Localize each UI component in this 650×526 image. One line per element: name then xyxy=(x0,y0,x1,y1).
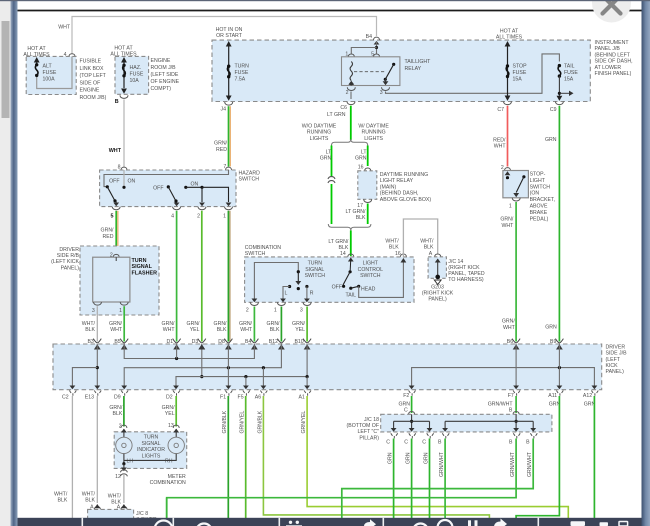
svg-text:14: 14 xyxy=(340,251,346,257)
wire GRN/WHT J/C18 B2 down to rail xyxy=(167,439,516,519)
svg-text:SWITCH: SWITCH xyxy=(245,251,266,257)
wire GRN/RED from J4 to hazard pin 7 xyxy=(214,106,230,166)
svg-text:7.5A: 7.5A xyxy=(235,77,246,83)
svg-text:GRN/: GRN/ xyxy=(162,405,176,411)
wire WHT/BLK meter 12 down to J/C8 A xyxy=(108,474,124,506)
node D8 connector xyxy=(218,339,232,350)
node D1 connector xyxy=(166,339,180,350)
node A connector J/C8 left xyxy=(90,504,100,511)
svg-text:BRACKET,: BRACKET, xyxy=(530,197,555,203)
svg-text:WHT/: WHT/ xyxy=(420,238,434,244)
svg-text:ALL TIMES: ALL TIMES xyxy=(23,52,50,58)
svg-text:AT LOWER: AT LOWER xyxy=(595,65,622,71)
svg-text:TAIL: TAIL xyxy=(564,64,575,70)
svg-text:(LEFT SIDE: (LEFT SIDE xyxy=(151,72,179,78)
node 1 comb switch bottom connector xyxy=(274,302,285,313)
svg-text:C6: C6 xyxy=(340,105,347,111)
J/C 8 box (dashed, cut by toolbar) xyxy=(88,509,157,523)
node B connector of J/C18 xyxy=(513,411,519,414)
svg-text:B10: B10 xyxy=(294,339,303,345)
wire GRN/YEL D2 to meter pin 13 xyxy=(162,396,177,427)
svg-text:WHT: WHT xyxy=(494,144,507,150)
svg-text:BLK: BLK xyxy=(270,327,280,333)
svg-text:A6: A6 xyxy=(255,395,261,401)
svg-text:WHT: WHT xyxy=(240,327,253,333)
svg-text:ABOVE: ABOVE xyxy=(530,204,548,210)
svg-text:STOP-: STOP- xyxy=(530,172,546,178)
svg-text:TAILLIGHT: TAILLIGHT xyxy=(405,59,432,65)
node F1 xyxy=(220,391,232,401)
svg-text:A11: A11 xyxy=(548,393,557,399)
svg-text:YEL: YEL xyxy=(190,327,200,333)
svg-text:OFF: OFF xyxy=(332,285,342,291)
svg-text:1: 1 xyxy=(509,203,512,209)
svg-text:C: C xyxy=(386,439,390,445)
svg-text:ALL TIMES: ALL TIMES xyxy=(110,51,137,57)
node B5 connector xyxy=(114,339,128,350)
svg-text:GRN/: GRN/ xyxy=(500,217,514,223)
wire B3 to E13 with C2 branch xyxy=(70,344,101,389)
svg-text:FUSIBLE: FUSIBLE xyxy=(80,59,102,65)
svg-text:LH: LH xyxy=(127,458,134,464)
right blue bar xyxy=(642,0,650,526)
node 2 flasher pin connector xyxy=(110,252,119,261)
svg-text:BLK: BLK xyxy=(424,245,434,251)
wire WHT top rail from fusible link pin 4 to instrument J/B pin B4 xyxy=(58,17,376,54)
wire D3 down to rail3 xyxy=(198,344,205,378)
svg-text:GRN/: GRN/ xyxy=(214,321,228,327)
svg-text:WHT: WHT xyxy=(503,325,516,331)
node C2 xyxy=(62,391,76,401)
svg-text:KICK: KICK xyxy=(606,363,619,369)
node F2 xyxy=(398,391,415,414)
svg-text:OFF: OFF xyxy=(153,185,163,191)
svg-text:INDICATOR: INDICATOR xyxy=(137,447,165,453)
svg-text:GRN/: GRN/ xyxy=(101,228,115,234)
engine room J/B box (dashed) xyxy=(110,45,179,94)
node 17 daytime relay bottom connector xyxy=(346,199,372,221)
node merge brace lower xyxy=(328,224,371,230)
wire WHT from fuse B down to hazard switch pin 8 xyxy=(109,99,124,167)
svg-text:GRN: GRN xyxy=(406,452,412,464)
node 16 daytime relay connector xyxy=(358,164,371,171)
svg-text:OFF: OFF xyxy=(109,179,119,185)
svg-text:100A: 100A xyxy=(43,76,56,82)
wire B5 to D1 to B4 rail xyxy=(124,344,254,360)
wire F2 to B9 to A12 rail xyxy=(409,344,598,389)
svg-text:GRN/: GRN/ xyxy=(292,321,306,327)
wire GRN J/C18 C2 down xyxy=(406,439,412,519)
wire GRN/RED hazard 5 to flasher 2 xyxy=(101,211,118,254)
svg-text:15A: 15A xyxy=(564,77,574,83)
svg-text:GRN: GRN xyxy=(545,137,557,143)
svg-text:C2: C2 xyxy=(62,395,69,401)
wire inner loop of fusible link box xyxy=(37,56,72,88)
svg-text:DRIVER: DRIVER xyxy=(59,247,79,253)
wire flasher pin2 stub xyxy=(115,257,117,261)
svg-text:B: B xyxy=(115,99,119,105)
svg-text:GRN/: GRN/ xyxy=(502,319,516,325)
svg-text:FUSE: FUSE xyxy=(564,70,578,76)
wire GRN/WHT stop switch 1 to J/B B6 xyxy=(500,202,516,342)
instrument panel J/B box (dashed) xyxy=(212,40,633,102)
svg-text:PILLAR): PILLAR) xyxy=(359,435,379,441)
svg-text:TURN: TURN xyxy=(235,64,250,70)
wire GRN C9 to J/B B9 xyxy=(545,106,559,342)
wire GRN F2 down to J/C18 C xyxy=(411,396,413,413)
wire hazard pin8 internal xyxy=(123,170,125,187)
svg-text:TURN: TURN xyxy=(144,435,159,441)
toolbar icon fragments xyxy=(155,520,453,526)
svg-text:16: 16 xyxy=(358,164,364,170)
svg-text:BLK: BLK xyxy=(389,245,399,251)
svg-text:SWITCH: SWITCH xyxy=(530,184,551,190)
svg-text:BLK: BLK xyxy=(85,327,95,333)
wire GRN/YEL F5 down to bottom xyxy=(240,396,246,518)
stop light switch box xyxy=(503,171,555,223)
top window edge line xyxy=(0,0,650,1)
svg-text:GRN/: GRN/ xyxy=(109,321,123,327)
node inline connector on left branch xyxy=(328,177,335,183)
svg-text:BLK: BLK xyxy=(356,215,366,221)
wire color labels above driver side J/B xyxy=(82,321,306,333)
svg-text:STOP: STOP xyxy=(513,64,528,70)
svg-text:WHT/: WHT/ xyxy=(82,321,96,327)
driver side R/B box (dashed) xyxy=(51,246,159,315)
svg-text:SWITCH: SWITCH xyxy=(239,177,260,183)
daytime running light relay box (dashed) xyxy=(358,171,432,203)
J/C 14 box (dashed) xyxy=(428,257,485,283)
svg-text:R: R xyxy=(310,291,314,297)
svg-text:INSTRUMENT: INSTRUMENT xyxy=(595,40,630,46)
taillight relay box xyxy=(342,57,432,86)
svg-text:GRN: GRN xyxy=(320,156,332,162)
svg-text:HAZARD: HAZARD xyxy=(239,171,261,177)
svg-text:(BEHIND LEFT: (BEHIND LEFT xyxy=(595,52,631,58)
svg-text:GRN/BLK: GRN/BLK xyxy=(222,410,228,433)
node C connector of J/C18 xyxy=(409,411,415,414)
turn signal indicator lights box (dashed) xyxy=(114,432,187,469)
svg-text:WHT/: WHT/ xyxy=(82,491,96,497)
svg-text:GRN/YEL: GRN/YEL xyxy=(301,411,307,434)
svg-text:BLK: BLK xyxy=(85,498,95,504)
node 1 hazard bottom connector xyxy=(223,207,232,220)
hazard switch S2 OFF xyxy=(153,185,179,206)
node 4 fusible link box connector xyxy=(64,52,75,58)
svg-text:ENGINE: ENGINE xyxy=(151,58,171,64)
relay coil xyxy=(350,62,352,81)
svg-text:B4: B4 xyxy=(366,34,372,40)
svg-text:GRN/: GRN/ xyxy=(214,140,228,146)
svg-text:RUNNING: RUNNING xyxy=(361,130,385,136)
node 4 hazard bottom connector xyxy=(171,207,180,220)
wire LT GRN/BLK merged down to comb switch 14 xyxy=(350,230,352,256)
node 1 stop switch bottom connector xyxy=(509,198,520,210)
node 13 meter connector xyxy=(168,423,179,429)
svg-text:D1: D1 xyxy=(166,339,173,345)
node B4 connector on instrument J/B top xyxy=(366,34,380,40)
svg-text:GRN/: GRN/ xyxy=(162,321,176,327)
wire GRN/WHT J/C18 B3 down to rail xyxy=(342,439,533,519)
svg-text:GRN/WHT: GRN/WHT xyxy=(510,451,516,477)
node B12 connector xyxy=(269,339,286,350)
wire from B4 to taillight relay pins 1 and 5 xyxy=(351,41,379,54)
wire GRN A11 down xyxy=(516,396,559,518)
J/C18 internal B bus xyxy=(442,414,536,432)
svg-text:HEAD: HEAD xyxy=(361,286,376,292)
svg-text:F7: F7 xyxy=(508,393,514,399)
node 2 stop switch connector xyxy=(501,165,511,171)
node C6 connector xyxy=(327,102,355,119)
wire WHT/BLK comb 16 to J/C 14 A xyxy=(385,219,437,257)
wire LT GRN left branch lower xyxy=(328,184,349,251)
svg-text:B: B xyxy=(509,439,513,445)
wire B6 to F7 straight xyxy=(513,344,519,389)
wire GRN/YEL A1 down and right xyxy=(301,396,568,518)
svg-text:W/O DAYTIME: W/O DAYTIME xyxy=(302,124,337,130)
hazard switch S3 ON xyxy=(184,182,231,207)
svg-text:ON: ON xyxy=(128,179,136,185)
svg-text:GRN/WHT: GRN/WHT xyxy=(439,451,445,477)
svg-text:LT GRN/: LT GRN/ xyxy=(328,239,349,245)
wire relay pin2 down to C6 xyxy=(350,92,352,100)
svg-text:FLASHER: FLASHER xyxy=(132,270,158,276)
svg-text:B3: B3 xyxy=(87,339,93,345)
fuse STOP FUSE 15A xyxy=(496,28,527,101)
svg-text:8: 8 xyxy=(118,164,121,170)
svg-text:D8: D8 xyxy=(218,339,225,345)
left blue bar xyxy=(11,0,18,526)
svg-text:2: 2 xyxy=(197,214,200,220)
svg-text:(LEFT: (LEFT xyxy=(606,357,621,363)
svg-text:ON: ON xyxy=(191,182,199,188)
svg-text:RED: RED xyxy=(103,234,114,240)
svg-text:LT: LT xyxy=(326,150,332,156)
svg-text:C9: C9 xyxy=(550,107,557,113)
wire GRN rail B left end stub xyxy=(166,498,168,518)
J/C 18 box (dashed) xyxy=(347,414,552,441)
svg-text:3: 3 xyxy=(92,308,95,314)
svg-text:SIDE R/B: SIDE R/B xyxy=(57,253,80,259)
node 14 comb switch connector xyxy=(340,251,354,257)
combination switch box (dashed) xyxy=(245,245,414,302)
node A connector of J/C 14 xyxy=(429,251,441,257)
svg-text:F1: F1 xyxy=(220,395,226,401)
toolbar xyxy=(18,518,642,526)
svg-text:COMBINATION: COMBINATION xyxy=(150,480,186,486)
svg-text:SIDE OF: SIDE OF xyxy=(80,80,101,86)
wire GRN/BLK F1 down to bottom xyxy=(222,396,228,518)
node A1 xyxy=(298,391,311,401)
wire GRN/WHT comb 2 to J/B B4 xyxy=(253,307,255,342)
node J4 connector xyxy=(221,102,233,113)
svg-text:PANEL): PANEL) xyxy=(606,369,625,375)
wire GRN/WHT flasher 1 to J/B B5 xyxy=(123,306,125,341)
svg-text:GRN/WHT: GRN/WHT xyxy=(527,451,533,477)
node B10 connector xyxy=(294,339,311,350)
svg-text:WHT: WHT xyxy=(163,327,176,333)
node 1 relay pin connector xyxy=(345,52,354,62)
svg-text:ROOM J/B: ROOM J/B xyxy=(151,65,177,71)
svg-text:D9: D9 xyxy=(114,395,121,401)
svg-text:CONTROL: CONTROL xyxy=(358,267,383,273)
node 2 hazard bottom connector xyxy=(197,207,206,220)
svg-text:E13: E13 xyxy=(85,395,94,401)
svg-text:15A: 15A xyxy=(513,77,523,83)
node 16 comb switch connector xyxy=(395,251,406,257)
node 3 relay pin connector xyxy=(380,87,390,96)
top black border line of diagram xyxy=(18,10,642,12)
svg-text:WHT: WHT xyxy=(109,148,122,154)
svg-text:2: 2 xyxy=(346,90,349,96)
node B connector under engine room J/B xyxy=(115,95,128,105)
node E13 xyxy=(85,391,101,401)
wire GRN/YEL hazard 2 down to J/B D3 xyxy=(201,211,203,342)
node 1 flasher bottom connector xyxy=(119,302,128,314)
svg-text:SWITCH: SWITCH xyxy=(360,273,381,279)
driver side J/B box (dashed) xyxy=(53,344,627,390)
svg-text:YEL: YEL xyxy=(295,327,305,333)
node A12 xyxy=(583,391,598,408)
svg-text:GRN/: GRN/ xyxy=(109,405,123,411)
wire LT GRN right branch xyxy=(355,146,368,167)
svg-text:YEL: YEL xyxy=(165,411,175,417)
lamp LH turn indicator xyxy=(116,429,132,464)
svg-text:PANEL J/B: PANEL J/B xyxy=(595,46,621,52)
svg-text:F2: F2 xyxy=(403,393,409,399)
svg-text:RELAY: RELAY xyxy=(405,66,422,72)
svg-text:(ON: (ON xyxy=(530,191,540,197)
node 3 flasher bottom connector xyxy=(92,302,102,314)
svg-text:COMPT): COMPT) xyxy=(151,86,172,92)
svg-text:FUSE: FUSE xyxy=(130,72,144,78)
node split brace upper xyxy=(332,139,368,145)
svg-text:LEFT "C": LEFT "C" xyxy=(358,429,380,435)
relay dashed link xyxy=(354,71,386,73)
svg-text:TAIL: TAIL xyxy=(346,293,357,299)
svg-text:OR START: OR START xyxy=(216,33,243,39)
svg-text:LT: LT xyxy=(361,150,367,156)
svg-text:RH: RH xyxy=(165,458,173,464)
svg-text:SIGNAL: SIGNAL xyxy=(305,267,324,273)
wire D9 to D8 to B12 rail xyxy=(121,344,281,389)
fuse HAZ FUSE 10A xyxy=(121,57,144,94)
wire LT GRN/BLK relay 17 down xyxy=(367,204,369,225)
svg-text:GRN/YEL: GRN/YEL xyxy=(240,411,246,434)
close button xyxy=(592,0,631,23)
svg-text:C: C xyxy=(404,439,408,445)
svg-text:3: 3 xyxy=(300,307,303,313)
relay switch contacts xyxy=(383,63,396,86)
svg-text:BLK: BLK xyxy=(57,498,67,504)
svg-text:ENGINE: ENGINE xyxy=(80,88,100,94)
svg-text:GRN/WHT: GRN/WHT xyxy=(488,401,514,407)
node junction dot meter lamps common xyxy=(122,462,125,465)
node 8 hazard pin connector xyxy=(118,164,127,170)
svg-text:HAZ.: HAZ. xyxy=(130,65,142,71)
left scrollbar track xyxy=(0,0,11,526)
wire GRN J/C18 C3 down xyxy=(423,439,429,519)
svg-text:WHT/: WHT/ xyxy=(385,238,399,244)
svg-text:B5: B5 xyxy=(114,339,120,345)
svg-text:B: B xyxy=(509,408,513,414)
svg-text:TURN: TURN xyxy=(132,258,147,264)
svg-text:D3: D3 xyxy=(192,339,199,345)
svg-text:WHT/: WHT/ xyxy=(54,491,68,497)
wire LT GRN from C6 down to split xyxy=(350,106,352,140)
fuse TAIL FUSE 15A xyxy=(557,64,579,101)
svg-text:RED: RED xyxy=(216,147,227,153)
node F5 xyxy=(238,391,250,401)
node F7 xyxy=(488,391,520,414)
wire relay pin3 to tail fuse xyxy=(386,54,560,93)
node 2 comb switch bottom connector xyxy=(246,302,258,313)
svg-text:PANEL): PANEL) xyxy=(61,265,80,271)
node D2 xyxy=(166,391,180,401)
svg-text:SIDE J/B: SIDE J/B xyxy=(606,351,628,357)
svg-text:17: 17 xyxy=(357,203,363,209)
hazard switch box (dashed) xyxy=(100,170,260,207)
svg-text:W/ DAYTIME: W/ DAYTIME xyxy=(358,124,389,130)
svg-text:SWITCH: SWITCH xyxy=(305,273,326,279)
svg-text:A1: A1 xyxy=(298,395,304,401)
node D9 xyxy=(114,391,128,401)
svg-text:3: 3 xyxy=(380,90,383,96)
svg-text:ALL TIMES: ALL TIMES xyxy=(496,34,523,40)
svg-text:(LEFT KICK: (LEFT KICK xyxy=(51,259,79,265)
svg-text:LIGHTS: LIGHTS xyxy=(364,136,383,142)
J/C18 bottom connectors C C C B B B xyxy=(386,433,397,445)
svg-text:LIGHTS: LIGHTS xyxy=(310,136,329,142)
wire GRN/WHT F7 down to J/C18 B xyxy=(515,396,517,413)
svg-text:METER: METER xyxy=(168,474,186,480)
svg-text:C: C xyxy=(404,408,408,414)
stop light switch internals xyxy=(505,171,526,197)
svg-text:B: B xyxy=(438,439,442,445)
svg-text:PEDAL): PEDAL) xyxy=(530,216,549,222)
svg-text:5: 5 xyxy=(111,214,114,220)
svg-text:BLK: BLK xyxy=(217,327,227,333)
fusible link box FL (dashed) xyxy=(23,46,106,101)
svg-text:(TOP LEFT: (TOP LEFT xyxy=(80,73,107,79)
svg-text:ABOVE GLOVE BOX): ABOVE GLOVE BOX) xyxy=(380,197,432,203)
lamp RH turn indicator xyxy=(124,429,184,461)
node A connector J/C8 right xyxy=(117,504,127,511)
node 5 hazard bottom connector xyxy=(111,207,121,220)
svg-text:FUSE: FUSE xyxy=(513,70,527,76)
svg-text:C7: C7 xyxy=(497,107,504,113)
node A6 xyxy=(255,391,268,401)
wire GRN/BLK A6 down and right to A11 xyxy=(257,396,489,518)
turn signal switch internals xyxy=(252,263,314,303)
svg-text:12: 12 xyxy=(115,474,121,480)
node 2 relay pin connector xyxy=(346,87,356,96)
wire GRN/WHT hazard 4 down to J/B D1 xyxy=(176,211,178,342)
node 12 meter bottom connector xyxy=(115,470,186,486)
svg-text:10A: 10A xyxy=(130,78,140,84)
svg-text:WHT: WHT xyxy=(501,223,514,229)
svg-text:FUSE: FUSE xyxy=(43,70,57,76)
svg-text:RUNNING: RUNNING xyxy=(307,130,331,136)
left scrollbar thumb xyxy=(2,21,10,118)
svg-text:ROOM J/B): ROOM J/B) xyxy=(80,95,107,101)
ground G203 xyxy=(422,259,454,303)
hazard switch S1 OFF/ON xyxy=(106,179,136,207)
svg-text:GRN/BLK: GRN/BLK xyxy=(257,410,263,433)
svg-text:ALT: ALT xyxy=(43,63,53,69)
node B4 connector (J/B) xyxy=(245,339,258,350)
svg-text:DRIVER: DRIVER xyxy=(606,344,626,350)
